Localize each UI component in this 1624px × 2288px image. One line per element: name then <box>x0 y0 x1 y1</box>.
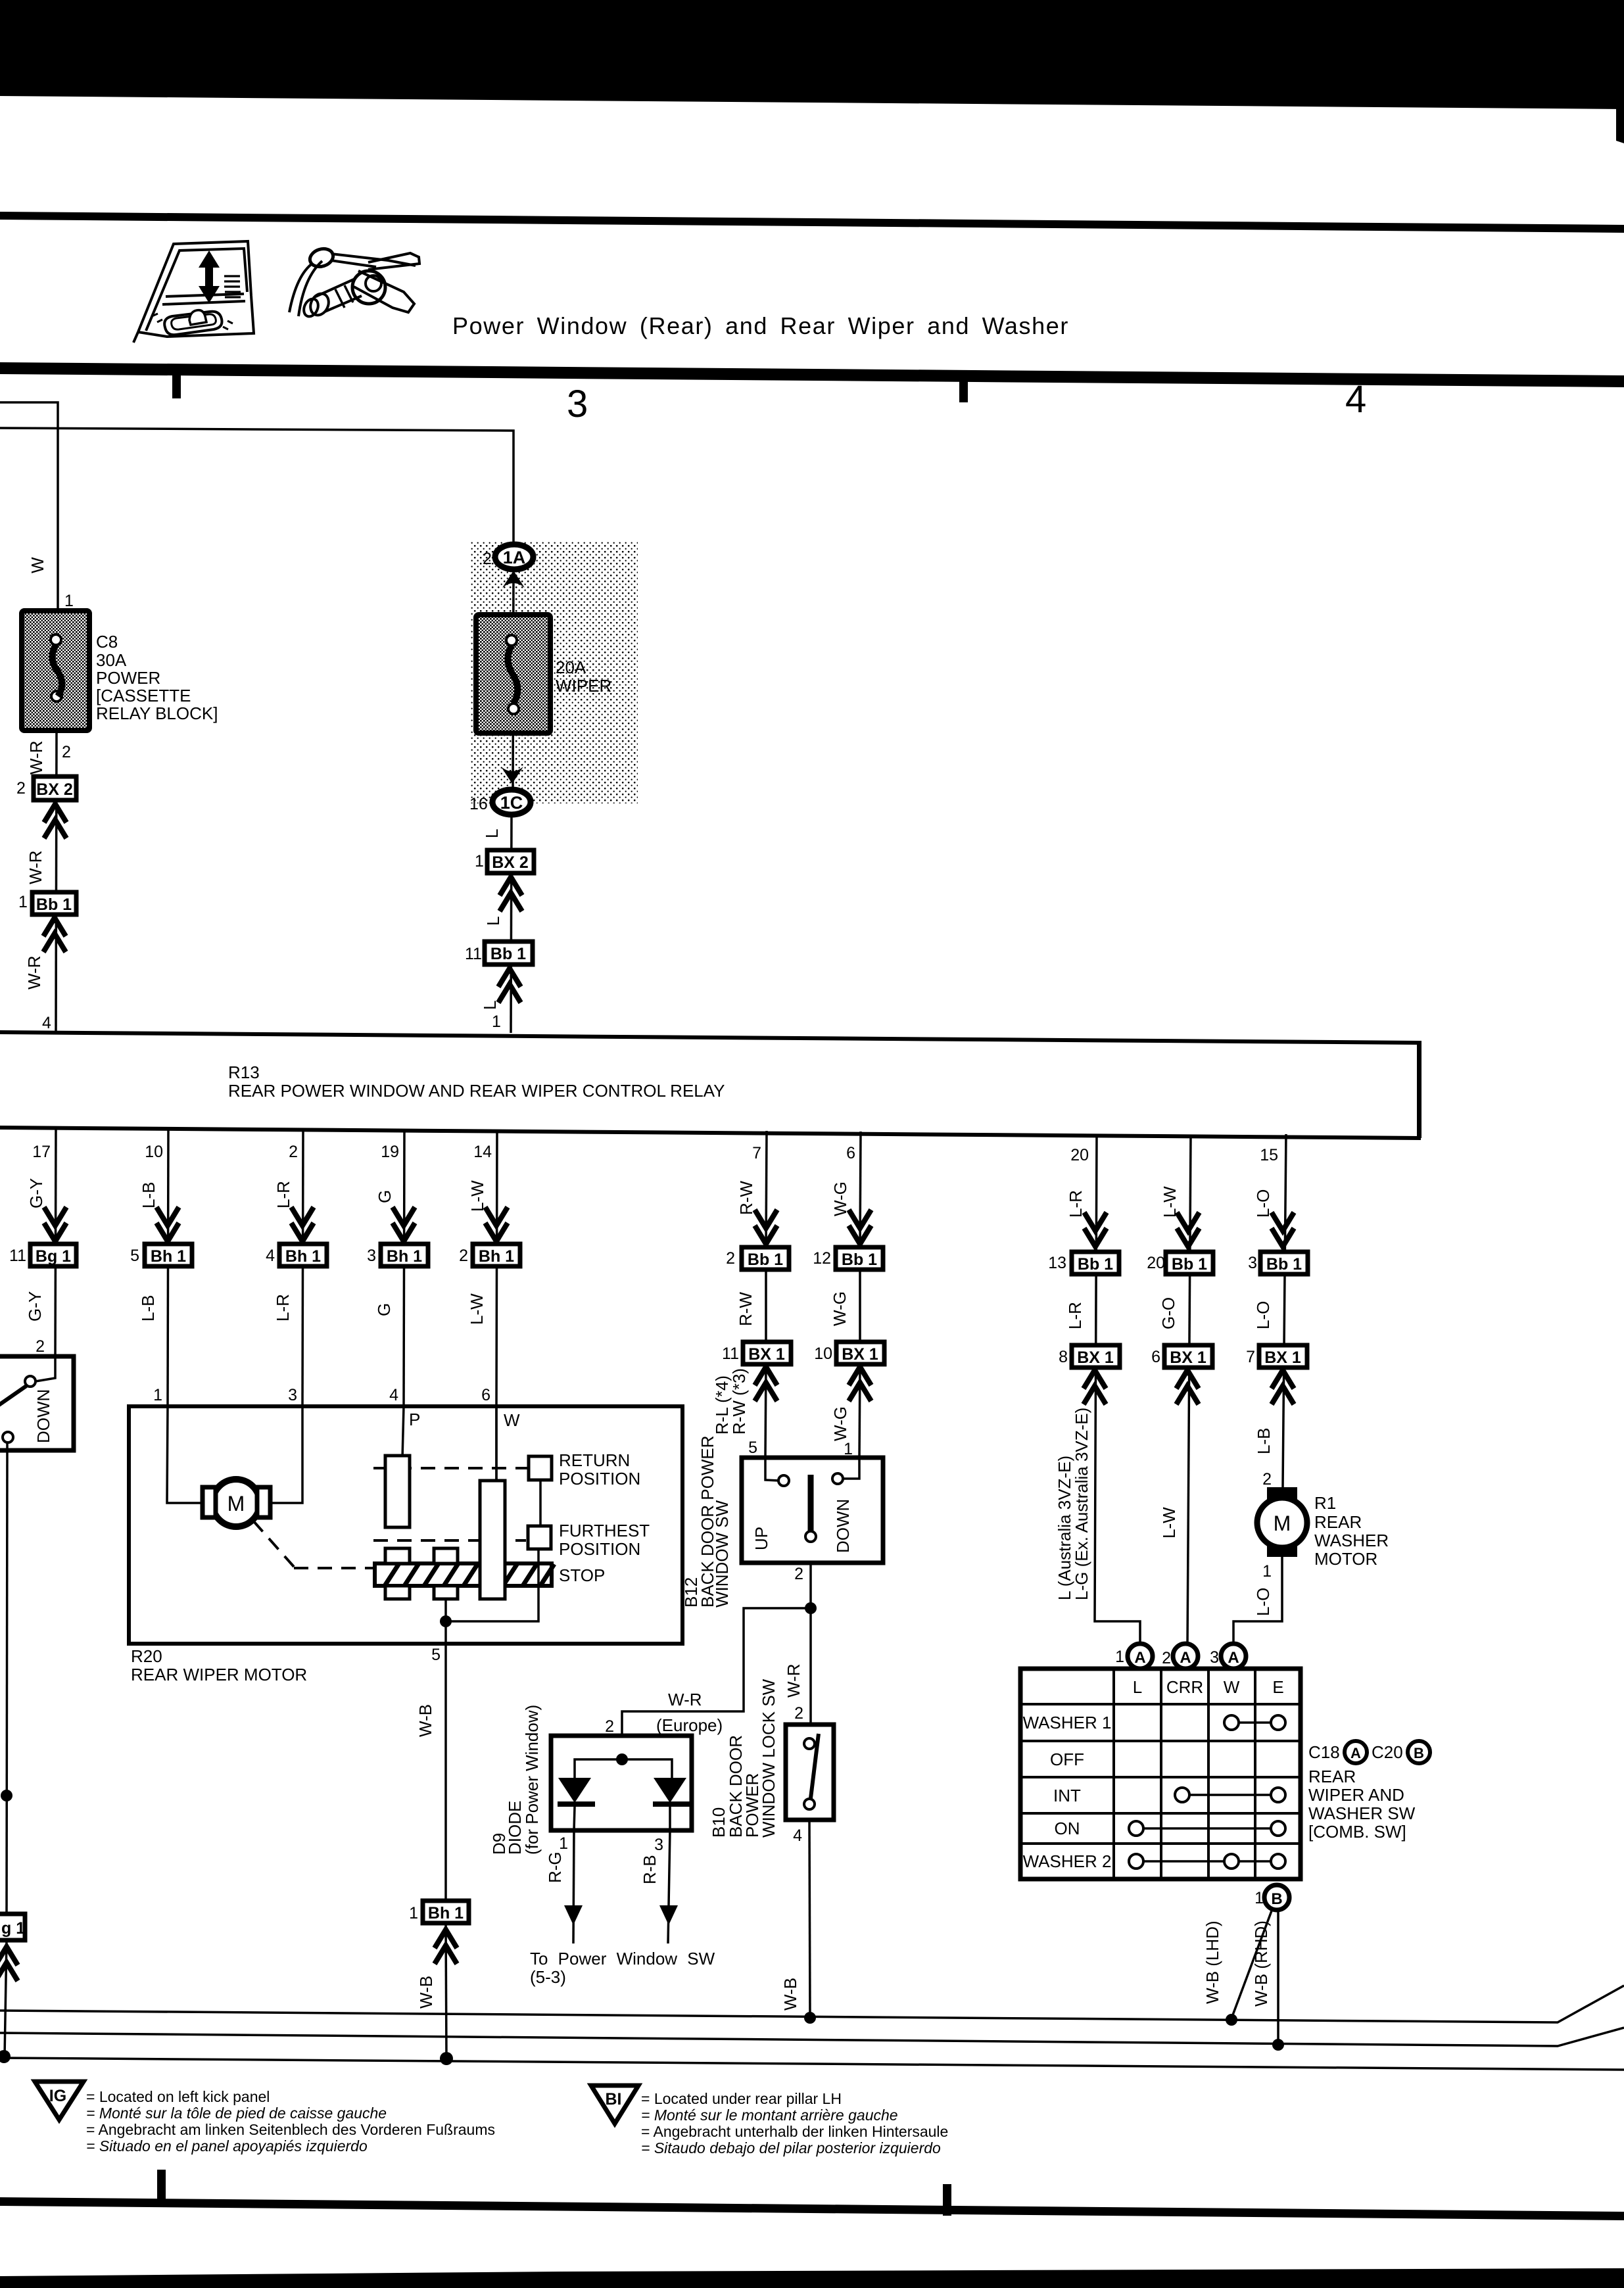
svg-text:L-W: L-W <box>1159 1507 1179 1538</box>
svg-text:W: W <box>1224 1677 1240 1697</box>
svg-text:1C: 1C <box>500 793 523 813</box>
svg-text:3: 3 <box>288 1386 297 1404</box>
svg-text:C20: C20 <box>1372 1742 1403 1762</box>
svg-text:BX 1: BX 1 <box>1170 1348 1206 1367</box>
svg-text:W-B: W-B <box>780 1978 800 2011</box>
svg-text:8: 8 <box>1059 1348 1068 1366</box>
svg-text:W: W <box>28 557 47 573</box>
svg-text:Bb 1: Bb 1 <box>36 895 72 914</box>
wire pin6 into W slider <box>495 1406 498 1483</box>
connector 11 BX 1 <box>722 1342 791 1364</box>
connector 12 Bb 1 <box>813 1247 883 1270</box>
chevron down col 6 <box>849 1210 871 1244</box>
svg-text:Bb 1: Bb 1 <box>1078 1255 1113 1274</box>
diode feed junction <box>616 1753 628 1765</box>
svg-text:C8: C8 <box>96 632 118 652</box>
svg-text:POSITION: POSITION <box>559 1539 640 1559</box>
svg-text:1: 1 <box>1254 1889 1264 1907</box>
svg-text:L-B: L-B <box>138 1295 158 1322</box>
wire W feed from left edge <box>0 402 58 611</box>
svg-text:= Monté sur la tôle de pied d: = Monté sur la tôle de pied de caisse ga… <box>86 2105 387 2122</box>
svg-text:G-O: G-O <box>1158 1297 1178 1329</box>
svg-text:2: 2 <box>605 1717 614 1736</box>
flow arrow up into 1A <box>502 571 525 588</box>
wire pin1 to motor <box>167 1406 208 1503</box>
wire stop plate to pin 5 <box>446 1549 538 1621</box>
chevron down col 17 <box>44 1207 66 1241</box>
svg-text:Bb 1: Bb 1 <box>490 945 526 963</box>
svg-text:G: G <box>375 1190 394 1203</box>
svg-text:10: 10 <box>145 1143 163 1161</box>
header rule upper <box>0 212 1624 233</box>
wire pin 5 down <box>444 1621 447 1901</box>
connector 5 Bh 1 <box>130 1244 192 1266</box>
wire R-W from relay pin 7 <box>766 1131 767 1247</box>
svg-text:L-B: L-B <box>139 1182 158 1208</box>
left power window switch (cut at page edge) <box>0 1356 74 1450</box>
wire W-B LHD diagonal <box>1231 1907 1273 2018</box>
svg-text:M: M <box>1274 1512 1291 1535</box>
chevron into BX 1 col 20 <box>1084 1370 1106 1404</box>
svg-text:WIPER AND: WIPER AND <box>1308 1785 1404 1805</box>
svg-text:R-B: R-B <box>640 1855 659 1884</box>
svg-text:L-W: L-W <box>467 1293 487 1325</box>
wire pin3 to motor <box>266 1406 302 1503</box>
svg-text:2: 2 <box>1162 1649 1171 1667</box>
wire L-W from relay pin 14 <box>496 1130 497 1481</box>
svg-text:W-B (RHD): W-B (RHD) <box>1251 1920 1271 2007</box>
svg-text:7: 7 <box>1246 1348 1255 1366</box>
label B12 BACK DOOR POWER WINDOW SW <box>681 1436 732 1608</box>
junction dot LHD on ground bus 1 <box>1226 2014 1237 2026</box>
wire R-B with arrow <box>659 1830 678 1943</box>
bottom rule <box>0 2197 1624 2220</box>
svg-text:16: 16 <box>469 795 488 813</box>
wire pin4 into P slider <box>402 1406 404 1458</box>
svg-text:Power Window (Rear) and Rear W: Power Window (Rear) and Rear Wiper and W… <box>452 312 1069 339</box>
svg-text:WINDOW LOCK SW: WINDOW LOCK SW <box>759 1679 778 1838</box>
connector circle 1 B <box>1264 1885 1289 1910</box>
connector 1 Bh 1 <box>409 1901 469 1923</box>
fuse C8 <box>22 611 89 730</box>
on contacts <box>1129 1821 1285 1836</box>
wire W-G from relay pin 6 <box>860 1132 861 1247</box>
connector 3 Bh 1 <box>367 1244 428 1266</box>
connector circle 2 A <box>1173 1644 1198 1669</box>
connector 1 BX 2 <box>475 850 534 873</box>
svg-text:2: 2 <box>794 1565 803 1583</box>
svg-text:B: B <box>1271 1890 1282 1908</box>
chevron into Bh 1 <box>435 1930 457 1964</box>
label W-R (Europe) <box>656 1690 723 1735</box>
connector 20 Bb 1 <box>1147 1252 1213 1274</box>
wire L-B from relay pin 10 <box>168 1130 168 1406</box>
connector 2 Bb 1 <box>726 1247 789 1270</box>
svg-text:7: 7 <box>752 1144 761 1162</box>
svg-text:OFF: OFF <box>1050 1750 1084 1769</box>
svg-text:20: 20 <box>1147 1254 1165 1272</box>
connector 4 Bh 1 <box>266 1244 327 1266</box>
svg-text:RETURN: RETURN <box>559 1450 630 1470</box>
wire between position squares <box>539 1480 542 1526</box>
svg-text:2: 2 <box>459 1247 468 1265</box>
svg-text:5: 5 <box>748 1439 757 1457</box>
svg-text:Bb 1: Bb 1 <box>842 1251 877 1269</box>
svg-text:B: B <box>1414 1745 1424 1761</box>
svg-text:(5-3): (5-3) <box>530 1967 566 1987</box>
wiper motor icon <box>289 246 419 319</box>
ground bus line 3 <box>0 2058 1624 2070</box>
svg-text:1: 1 <box>1262 1562 1272 1581</box>
svg-text:L-R: L-R <box>273 1294 293 1322</box>
svg-text:BX 2: BX 2 <box>36 780 73 799</box>
svg-text:REAR WIPER MOTOR: REAR WIPER MOTOR <box>131 1665 307 1684</box>
chevron into BX 2 left <box>44 804 66 838</box>
chevron down col 14 <box>485 1207 508 1241</box>
chevron into BX 1 col 7 <box>755 1367 777 1401</box>
svg-text:11: 11 <box>465 945 482 963</box>
svg-text:1: 1 <box>64 592 74 610</box>
svg-text:W: W <box>504 1410 520 1430</box>
svg-text:Bb 1: Bb 1 <box>1266 1255 1302 1274</box>
junction dot pin 5 <box>440 1615 452 1627</box>
svg-text:WIPER: WIPER <box>556 676 611 696</box>
washer motor R1 <box>1257 1487 1307 1557</box>
bottom page edge band <box>0 2268 1624 2288</box>
bottom rule tick left <box>157 2170 166 2201</box>
junction dot left wire <box>1 1790 12 1801</box>
svg-text:2: 2 <box>289 1143 298 1161</box>
svg-text:FURTHEST: FURTHEST <box>559 1521 650 1540</box>
svg-text:W-R: W-R <box>26 850 45 884</box>
rear wiper and washer switch table <box>1020 1669 1301 1879</box>
wire G-Y from relay pin 17 <box>55 1130 56 1356</box>
svg-text:20A: 20A <box>556 657 586 677</box>
svg-text:12: 12 <box>813 1249 831 1268</box>
svg-text:5: 5 <box>431 1646 441 1664</box>
bottom rule tick right <box>943 2184 951 2216</box>
svg-text:= Located under rear pillar L: = Located under rear pillar LH <box>641 2090 842 2107</box>
svg-text:10: 10 <box>814 1345 832 1363</box>
wire to ground bus <box>5 1940 7 2057</box>
svg-text:4: 4 <box>266 1247 275 1265</box>
stop plate lower tabs <box>385 1586 458 1599</box>
wire W-G to BX 1 <box>859 1270 861 1342</box>
svg-text:WASHER: WASHER <box>1314 1531 1389 1550</box>
svg-text:W-G: W-G <box>830 1406 850 1441</box>
diode D9b <box>653 1778 690 1830</box>
ground bus line 1 <box>0 1986 1624 2022</box>
junction dot on ground bus 3 wiper <box>440 2052 453 2065</box>
svg-text:R-W (*3): R-W (*3) <box>729 1368 749 1435</box>
wire to B12 pin 1 <box>859 1364 860 1459</box>
svg-text:A: A <box>1228 1649 1239 1667</box>
svg-text:W-R: W-R <box>668 1690 702 1709</box>
wire L feed to wiper fuse <box>0 428 513 546</box>
label D9 DIODE (for Power Window) <box>489 1705 542 1855</box>
junction dot below B12 <box>805 1602 817 1614</box>
svg-text:3: 3 <box>367 1247 376 1265</box>
svg-text:1: 1 <box>18 893 28 911</box>
svg-text:11: 11 <box>9 1247 26 1265</box>
svg-text:= Situado en el panel apoyapi: = Situado en el panel apoyapiés izquierd… <box>86 2137 368 2155</box>
svg-text:1: 1 <box>153 1386 162 1404</box>
junction dot on ground bus 3 <box>0 2050 11 2063</box>
svg-text:IG: IG <box>49 2087 66 2105</box>
svg-text:L-W: L-W <box>467 1180 487 1212</box>
svg-text:A: A <box>1350 1745 1361 1761</box>
chevron down col mid <box>1177 1212 1199 1247</box>
chevron into Bb 1 left <box>43 918 66 952</box>
svg-text:1: 1 <box>409 1904 418 1922</box>
junction dot RHD on ground bus 2 <box>1272 2039 1284 2051</box>
svg-text:M: M <box>227 1492 245 1515</box>
svg-text:Bb 1: Bb 1 <box>748 1251 783 1269</box>
svg-text:6: 6 <box>1151 1348 1160 1366</box>
dashed link motor to stop plate <box>253 1521 373 1568</box>
svg-text:2: 2 <box>36 1337 45 1356</box>
svg-text:2: 2 <box>794 1704 803 1723</box>
connector 7 BX 1 <box>1246 1345 1307 1368</box>
svg-text:P: P <box>409 1410 420 1429</box>
svg-text:R-W: R-W <box>736 1292 755 1326</box>
svg-text:W-G: W-G <box>830 1291 849 1326</box>
wire R-W to BX 1 <box>765 1270 767 1342</box>
svg-text:= Angebracht am linken Seiten: = Angebracht am linken Seitenblech des V… <box>86 2121 495 2138</box>
svg-text:20: 20 <box>1070 1146 1089 1164</box>
connector 11 Bb 1 <box>465 941 533 965</box>
dashed line furthest position <box>373 1539 526 1542</box>
connector Bg 1 cut at edge <box>0 1914 25 1940</box>
svg-text:1: 1 <box>1115 1648 1124 1666</box>
svg-text:E: E <box>1272 1677 1283 1697</box>
wire from B12 pin 2 <box>809 1563 812 1727</box>
svg-text:3: 3 <box>1248 1254 1257 1272</box>
svg-text:13: 13 <box>1048 1254 1066 1272</box>
svg-text:1: 1 <box>475 852 484 870</box>
svg-text:To Power Window SW: To Power Window SW <box>530 1949 715 1968</box>
chevron into BX 1 col 15 <box>1272 1370 1294 1404</box>
svg-text:1: 1 <box>559 1834 568 1853</box>
svg-text:L: L <box>483 917 503 926</box>
diode D9a <box>558 1778 595 1830</box>
dashed line return position <box>373 1467 527 1469</box>
wire from left switch down <box>7 1442 7 1914</box>
header rule lower <box>0 362 1624 387</box>
wire W-B from B10 to ground <box>809 1820 810 2018</box>
svg-text:INT: INT <box>1053 1786 1081 1805</box>
label To Power Window SW (5-3) <box>530 1949 715 1987</box>
svg-text:Bh 1: Bh 1 <box>285 1247 321 1266</box>
washer1 contacts <box>1224 1715 1285 1730</box>
wire L-O from relay pin 15 <box>1283 1134 1286 1487</box>
svg-text:4: 4 <box>793 1826 802 1845</box>
svg-text:Bb 1: Bb 1 <box>1172 1255 1207 1274</box>
diode D9 box <box>551 1736 692 1830</box>
svg-text:R1: R1 <box>1314 1493 1336 1513</box>
chevron down col 10 <box>156 1207 179 1241</box>
svg-text:WASHER 2: WASHER 2 <box>1023 1851 1112 1871</box>
svg-text:L-R: L-R <box>274 1181 293 1208</box>
svg-text:ON: ON <box>1055 1819 1080 1838</box>
connector 8 BX 1 <box>1059 1345 1120 1368</box>
svg-text:L-O: L-O <box>1253 1189 1273 1218</box>
return position square <box>529 1456 552 1480</box>
svg-text:Bh 1: Bh 1 <box>479 1247 514 1266</box>
svg-text:6: 6 <box>481 1386 490 1404</box>
svg-text:W-B (LHD): W-B (LHD) <box>1203 1920 1222 2004</box>
svg-text:3: 3 <box>567 383 588 425</box>
stipple region wiper fuse <box>470 541 638 803</box>
svg-text:G-Y: G-Y <box>26 1178 46 1208</box>
W slider contact overlay <box>480 1481 505 1599</box>
svg-text:DOWN: DOWN <box>833 1499 853 1553</box>
connector 13 Bb 1 <box>1048 1252 1119 1274</box>
svg-text:= Located on left kick panel: = Located on left kick panel <box>86 2088 270 2105</box>
svg-text:R-G: R-G <box>545 1851 565 1883</box>
legend triangle IG <box>35 2082 84 2120</box>
svg-text:W-R: W-R <box>24 955 44 989</box>
svg-text:4: 4 <box>389 1386 398 1404</box>
svg-text:UP: UP <box>752 1527 771 1550</box>
svg-text:Bg 1: Bg 1 <box>36 1247 71 1266</box>
wire L-O below washer motor <box>1233 1557 1282 1645</box>
svg-text:WASHER SW: WASHER SW <box>1308 1803 1416 1823</box>
svg-text:Bh 1: Bh 1 <box>428 1904 464 1922</box>
svg-text:BX 1: BX 1 <box>1077 1348 1114 1367</box>
svg-text:(for Power Window): (for Power Window) <box>522 1705 542 1855</box>
grid tick right <box>959 380 968 402</box>
svg-text:= Monté sur le montant arrièr: = Monté sur le montant arrière gauche <box>641 2107 898 2124</box>
svg-text:3: 3 <box>1210 1648 1219 1667</box>
wire W-B to ground <box>446 1923 446 2059</box>
svg-text:RELAY BLOCK]: RELAY BLOCK] <box>96 703 218 723</box>
svg-text:L-O: L-O <box>1253 1301 1273 1329</box>
relay R13 box <box>0 1030 1421 1140</box>
svg-text:6: 6 <box>846 1144 855 1162</box>
stop plate upper tabs <box>385 1548 458 1563</box>
rear wiper motor R20 box <box>129 1406 682 1644</box>
svg-text:BX 1: BX 1 <box>748 1345 785 1364</box>
wire L below 1C to relay <box>511 813 512 1033</box>
wire W-B RHD <box>1277 1910 1279 2045</box>
svg-text:POWER: POWER <box>96 668 160 688</box>
connector oval 1C <box>492 790 531 815</box>
P slider contact <box>385 1456 410 1527</box>
top black band <box>0 0 1624 109</box>
chevron down col 15 <box>1272 1212 1294 1247</box>
svg-text:W-R: W-R <box>26 740 46 775</box>
svg-text:L-O: L-O <box>1253 1588 1273 1616</box>
svg-text:STOP: STOP <box>559 1565 605 1585</box>
svg-text:11: 11 <box>722 1345 739 1363</box>
svg-text:4: 4 <box>1345 378 1366 421</box>
connector oval 1A <box>495 544 533 569</box>
svg-text:W-B: W-B <box>416 1976 436 2009</box>
svg-text:REAR: REAR <box>1314 1512 1362 1532</box>
diode internal wiring <box>575 1759 672 1778</box>
wire L-R from relay pin 2 <box>302 1130 303 1406</box>
furthest position square <box>528 1526 551 1549</box>
wire R-G with arrow <box>564 1830 583 1943</box>
svg-text:DOWN: DOWN <box>34 1389 53 1443</box>
svg-text:5: 5 <box>130 1247 139 1265</box>
svg-text:2: 2 <box>62 743 71 761</box>
chevron down col 19 <box>393 1207 415 1241</box>
svg-text:C18: C18 <box>1308 1742 1340 1762</box>
wire through wiper fuse column <box>513 569 513 792</box>
svg-text:= Sitaudo debajo del pilar po: = Sitaudo debajo del pilar posterior izq… <box>641 2139 941 2157</box>
svg-text:30A: 30A <box>96 650 127 670</box>
svg-text:Bh 1: Bh 1 <box>151 1247 186 1266</box>
svg-text:BX 1: BX 1 <box>1264 1348 1301 1367</box>
chevron down col 2 <box>291 1207 314 1241</box>
legend BI text <box>641 2090 948 2157</box>
svg-text:15: 15 <box>1260 1146 1278 1164</box>
connector circle 3 A <box>1221 1644 1246 1669</box>
svg-text:2: 2 <box>16 779 26 798</box>
svg-text:BX 1: BX 1 <box>842 1345 878 1364</box>
chevron down col 7 <box>755 1210 777 1244</box>
connector circle 1 A <box>1128 1644 1153 1669</box>
svg-text:CRR: CRR <box>1166 1677 1203 1697</box>
wire L-R from relay pin 20 <box>1095 1134 1140 1645</box>
svg-text:A: A <box>1134 1649 1145 1667</box>
svg-text:POSITION: POSITION <box>559 1469 640 1489</box>
chevron into BX 1 col 6 <box>849 1367 871 1401</box>
connector 10 BX 1 <box>814 1342 884 1364</box>
label B10 BACK DOOR POWER WINDOW LOCK SW <box>709 1679 778 1838</box>
svg-text:L: L <box>1133 1677 1142 1697</box>
svg-text:g 1: g 1 <box>1 1919 25 1938</box>
svg-text:REAR: REAR <box>1308 1767 1356 1786</box>
label REAR WIPER AND WASHER SW [COMB. SW] <box>1308 1767 1416 1842</box>
wire L-W from relay <box>1187 1135 1191 1645</box>
legend IG text <box>86 2088 495 2155</box>
wiper motor M <box>203 1479 270 1527</box>
svg-text:BX 2: BX 2 <box>492 853 529 872</box>
svg-text:= Angebracht unterhalb der li: = Angebracht unterhalb der linken Hinter… <box>641 2123 948 2140</box>
svg-text:2: 2 <box>483 550 492 568</box>
wire G from relay pin 19 <box>404 1130 404 1406</box>
junction dot on ground bus 1 <box>804 2012 816 2024</box>
svg-text:(Europe): (Europe) <box>656 1715 723 1735</box>
back door power window lock switch B10 <box>786 1725 834 1820</box>
svg-text:L: L <box>482 829 502 838</box>
svg-text:17: 17 <box>32 1143 51 1161</box>
svg-text:L-R: L-R <box>1065 1302 1085 1329</box>
svg-text:W-B: W-B <box>416 1704 435 1737</box>
connector 1 Bb 1 <box>18 892 76 915</box>
connector 6 BX 1 <box>1151 1345 1212 1368</box>
fuse 20A WIPER <box>476 615 550 733</box>
connector 2 Bh 1 <box>459 1244 520 1266</box>
label C18 A C20 B <box>1308 1741 1430 1763</box>
svg-text:L: L <box>480 1001 500 1010</box>
svg-text:REAR POWER WINDOW AND REAR WIP: REAR POWER WINDOW AND REAR WIPER CONTROL… <box>228 1081 725 1101</box>
svg-text:G-Y: G-Y <box>25 1291 45 1322</box>
ground bus line 2 <box>0 2028 1624 2046</box>
svg-text:L-B: L-B <box>1254 1428 1274 1454</box>
svg-text:L-G (Ex. Australia 3VZ-E): L-G (Ex. Australia 3VZ-E) <box>1072 1408 1091 1600</box>
svg-text:A: A <box>1180 1649 1191 1667</box>
svg-text:R13: R13 <box>228 1062 260 1082</box>
svg-text:19: 19 <box>381 1143 399 1161</box>
svg-text:G: G <box>374 1303 394 1316</box>
connector 2 BX 2 <box>16 776 76 800</box>
connector 3 Bb 1 <box>1248 1252 1308 1274</box>
wire to B12 pin 5 <box>765 1364 766 1458</box>
